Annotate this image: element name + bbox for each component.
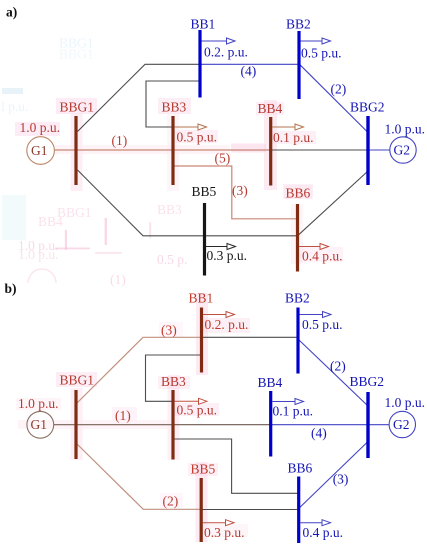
svg-text:0.5 p.u.: 0.5 p.u.: [302, 317, 343, 332]
svg-text:(3): (3): [333, 472, 349, 487]
bus bar BBG2 (a): [366, 116, 369, 185]
wire: blue stub BBG2-G2: [368, 149, 390, 151]
wire: blue stub BBG2-G2 (b): [368, 424, 389, 426]
wire: black BBG1-BB1: [78, 64, 201, 131]
wire: black elbow BB1-BB3 (b): [146, 355, 202, 401]
wire: blue line (3) BB6-BBG2 (b): [299, 442, 368, 509]
svg-text:BB4: BB4: [258, 375, 283, 390]
svg-text:(5): (5): [215, 151, 231, 166]
svg-text:BB1: BB1: [189, 290, 214, 305]
svg-text:BB3: BB3: [161, 374, 186, 389]
svg-text:BB2: BB2: [285, 290, 310, 305]
svg-text:0.1 p.u.: 0.1 p.u.: [273, 404, 314, 419]
svg-text:BBG1: BBG1: [60, 373, 95, 388]
wire: black elbow BB3-BB6 (b): [173, 439, 299, 493]
bus bar BB5 (b): [200, 478, 203, 542]
load arrow BB4 (a): [272, 124, 304, 130]
wire: black diagonal BB6-BBG2: [298, 171, 369, 236]
generator G1 (a): [27, 137, 55, 165]
svg-text:0.2. p.u.: 0.2. p.u.: [204, 45, 248, 60]
load arrow BB5 (b): [203, 520, 234, 526]
svg-text:(3): (3): [232, 183, 248, 198]
ghost text BBG1 (artifact): [18, 202, 182, 262]
svg-text:BB1: BB1: [191, 17, 216, 32]
wire: black elbow BB1-BB3: [146, 81, 200, 127]
load arrow BB3 (a): [175, 124, 207, 130]
svg-text:0.3 p.u.: 0.3 p.u.: [207, 248, 248, 263]
svg-text:G1: G1: [31, 143, 48, 158]
wire: red main G1-BBG1-BB3 (b): [54, 424, 173, 426]
svg-text:BB5: BB5: [192, 184, 217, 199]
bus bar BB3 (a): [171, 116, 174, 185]
svg-text:BB5: BB5: [191, 462, 216, 477]
ghost halo band BB1 (b): [16, 293, 248, 542]
wire: black main BB3-BB4 (b): [173, 424, 271, 426]
wire: black BB5-BB6 (b): [201, 509, 299, 511]
svg-text:BBG2: BBG2: [350, 100, 385, 115]
generator G2 (b): [389, 411, 415, 437]
svg-text:BB3: BB3: [162, 100, 187, 115]
svg-text:a): a): [6, 5, 17, 20]
generator G2 (a): [390, 137, 416, 163]
svg-text:BB2: BB2: [286, 17, 311, 32]
svg-text:BB4: BB4: [258, 101, 283, 116]
generator G1 (b): [27, 411, 54, 438]
wire: black BB1-BB2 (b): [202, 336, 299, 338]
ghost marks (artifacts): [1, 36, 187, 288]
svg-text:G2: G2: [393, 417, 410, 432]
load arrow BB2 (a): [301, 38, 331, 44]
svg-text:0.4 p.u.: 0.4 p.u.: [302, 249, 343, 264]
wire: blue line (2) BB2-BBG2 diagonal: [300, 64, 368, 132]
load arrow BB1 (b): [203, 312, 235, 318]
svg-text:1.0 p.u.: 1.0 p.u.: [20, 120, 61, 135]
wire: red elbow lines (5)/(3) BB3-BB6: [173, 166, 298, 219]
svg-text:0.1 p.u.: 0.1 p.u.: [273, 130, 314, 145]
svg-text:0.5 p.: 0.5 p.: [157, 252, 187, 267]
bus bar BB4 (a): [269, 117, 272, 186]
svg-text:(1): (1): [115, 408, 131, 423]
svg-text:1.0 p.u.: 1.0 p.u.: [18, 238, 59, 253]
load arrow BB6 (b): [300, 520, 330, 526]
svg-text:1.0 p.u.: 1.0 p.u.: [385, 122, 426, 137]
svg-text:0.4 p.u.: 0.4 p.u.: [303, 525, 344, 540]
svg-text:BB6: BB6: [286, 186, 311, 201]
wire: black main BB4-BBG2: [271, 149, 368, 151]
bus bar BB2 (a): [297, 31, 300, 99]
bus bar BB2 (b): [296, 308, 299, 374]
wire: blue line (4) BB1-BB2: [200, 63, 299, 65]
svg-text:BB3: BB3: [157, 202, 182, 217]
svg-text:BBG1: BBG1: [59, 47, 94, 62]
bus bar BBG2 (b): [366, 392, 369, 458]
svg-text:(2): (2): [163, 494, 179, 509]
svg-text:(2): (2): [330, 359, 346, 374]
svg-text:(3): (3): [161, 323, 177, 338]
wire: red line (2) BBG1-BB5 (b): [77, 444, 201, 509]
svg-text:0.2. p.u.: 0.2. p.u.: [205, 317, 249, 332]
load arrow BB3 (b): [175, 398, 208, 404]
bus bar BB1 (a): [198, 30, 201, 98]
load arrow BB6 (a): [299, 244, 329, 250]
svg-text:1.0 p.u.: 1.0 p.u.: [18, 396, 59, 411]
svg-text:0.3 p.u.: 0.3 p.u.: [204, 525, 245, 540]
wire: blue line (4) BB4-BBG2 (b): [271, 424, 368, 426]
ghost arc (artifact): [28, 269, 56, 283]
svg-text:0.5 p.u.: 0.5 p.u.: [301, 46, 342, 61]
svg-text:0.5 p.u.: 0.5 p.u.: [177, 403, 218, 418]
svg-text:l p.u.: l p.u.: [1, 99, 28, 114]
svg-text:0.5 p.u.: 0.5 p.u.: [177, 130, 218, 145]
wire: red main G1-BBG1-BB3-BB4: [55, 149, 271, 151]
bus bar BB4 (b): [269, 391, 272, 457]
svg-text:(1): (1): [110, 272, 126, 287]
svg-text:G2: G2: [394, 143, 411, 158]
load arrow BB5 (a): [206, 244, 236, 250]
svg-text:BB6: BB6: [288, 461, 313, 476]
svg-text:b): b): [5, 281, 17, 296]
svg-text:(4): (4): [241, 64, 257, 79]
svg-text:(4): (4): [311, 426, 327, 441]
wire: red line (3) BBG1-BB1 (b): [77, 337, 202, 403]
load arrow BB4 (b): [272, 399, 304, 405]
bus bar BBG1 (b): [74, 390, 77, 459]
bus bar BBG1 (a): [74, 116, 77, 185]
svg-text:(2): (2): [331, 82, 347, 97]
wire: blue line (2) BB2-BBG2 (b): [299, 340, 368, 406]
bus bar BB5 (a): [203, 203, 206, 276]
bus bar BB3 (b): [171, 390, 174, 460]
ghost halo band BB4 (a): [55, 100, 312, 264]
svg-text:BBG2: BBG2: [350, 374, 385, 389]
load arrow BB1 (a): [202, 38, 236, 44]
bus bar BB6 (b): [297, 477, 300, 544]
ghost label halos (artifacts): [56, 98, 343, 508]
svg-text:1.0 p.u.: 1.0 p.u.: [385, 395, 426, 410]
svg-text:BBG1: BBG1: [60, 100, 95, 115]
load arrow BB2 (b): [300, 312, 332, 318]
bus bar BB1 (b): [200, 308, 203, 373]
svg-text:(1): (1): [112, 133, 128, 148]
bus bar BB6 (a): [296, 204, 299, 272]
svg-text:G1: G1: [31, 417, 48, 432]
wire: black bottom BBG1-BB5-BB6: [78, 170, 298, 236]
svg-text:BB4: BB4: [38, 214, 63, 229]
